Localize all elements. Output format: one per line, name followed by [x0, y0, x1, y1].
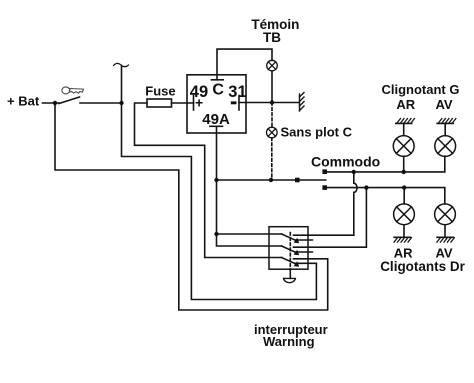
- wire pole2 output riser: [294, 188, 367, 248]
- pin common mid: [295, 178, 300, 183]
- wire ground to AR top lamp: [403, 124, 405, 136]
- switch blade pole3: [282, 258, 297, 265]
- pin commodo lower: [322, 185, 327, 190]
- svg-text:Fuse: Fuse: [145, 84, 175, 99]
- ground bottom left: [394, 237, 412, 242]
- lamp AR top: [393, 136, 414, 157]
- switch key-switch blade: [59, 97, 80, 104]
- svg-text:+: +: [195, 94, 203, 110]
- wire dashed lamp to common wire: [271, 138, 273, 180]
- label minus: [231, 101, 237, 104]
- svg-text:AR: AR: [396, 97, 415, 112]
- relay U1 box: [187, 75, 246, 133]
- node dashed-common: [269, 178, 273, 182]
- node AR-upper: [402, 170, 406, 174]
- wire switch to node B: [80, 102, 122, 104]
- node TB-31: [270, 100, 274, 104]
- svg-text:TB: TB: [263, 30, 281, 45]
- stub pole2 lower contact: [295, 251, 312, 253]
- node 49A-common: [214, 178, 218, 182]
- wire TB lamp down to 31 wire: [271, 71, 273, 103]
- node pole1 branch: [214, 232, 218, 236]
- node AR-lower: [402, 185, 406, 189]
- ground bottom right: [437, 237, 455, 242]
- wire ground to AV top lamp: [444, 124, 446, 136]
- wire commodo blade with hop to pole1 output: [354, 172, 357, 235]
- wire pole1 output: [294, 234, 354, 236]
- node B: [119, 101, 123, 105]
- node pole2-lower: [364, 185, 368, 189]
- actuator stem: [289, 269, 291, 278]
- wire commodo common: [217, 179, 326, 181]
- ground top left: [396, 119, 415, 124]
- svg-text:+ Bat: + Bat: [7, 94, 40, 109]
- key symbol: [62, 87, 84, 94]
- arrow pole3: [294, 261, 300, 266]
- actuator bowl: [284, 278, 296, 282]
- fuse F1: [147, 99, 172, 107]
- wire 49A chain down to warning pole2 input: [217, 126, 282, 246]
- svg-text:Sans plot C: Sans plot C: [281, 125, 353, 140]
- stub pole1 lower contact: [295, 239, 312, 241]
- terminal 31 bar: [238, 96, 240, 111]
- wire AR top lamp stem: [403, 156, 405, 172]
- wire commodo upper to G lamps: [327, 156, 445, 172]
- wire dashed TB to lamp sans plot: [271, 103, 273, 128]
- mechanical dashed link: [289, 233, 291, 270]
- wire +Bat lead: [43, 102, 60, 104]
- ground top right: [437, 119, 456, 124]
- wire fuse to relay terminal 49: [172, 102, 194, 104]
- break tilde on net B: [114, 63, 129, 66]
- wire C terminal up to TB lamp: [217, 49, 272, 80]
- svg-text:Commodo: Commodo: [311, 153, 380, 169]
- terminal 49 bar: [193, 96, 195, 111]
- lamp AR bottom: [394, 204, 415, 225]
- arrow pole1: [294, 238, 300, 243]
- wire chain A : +Bat node down, wrap under warning switch to pole3 upper contact: [55, 103, 328, 310]
- wire pole1 input branch: [217, 233, 282, 235]
- svg-text:Clignotant G: Clignotant G: [382, 82, 460, 97]
- switch blade pole2: [282, 246, 297, 253]
- svg-text:Cligotants Dr: Cligotants Dr: [380, 259, 465, 274]
- terminal C bar: [211, 79, 223, 81]
- lamp TB indicator: [267, 60, 278, 71]
- wire fuse chain : fuse left down and around to pole3 input: [135, 103, 282, 258]
- terminal 49A bar: [210, 125, 223, 127]
- wire chain B : node B down, wrap to pole3 lower contact: [122, 67, 317, 300]
- wire AV bottom lamp to ground: [444, 225, 446, 237]
- pin commodo upper: [322, 169, 327, 174]
- svg-text:31: 31: [228, 83, 246, 101]
- lamp AV bottom: [435, 204, 456, 225]
- lamp AV top: [435, 136, 456, 157]
- svg-text:C: C: [212, 82, 224, 99]
- arrow pole2: [294, 250, 300, 255]
- svg-text:Warning: Warning: [263, 334, 315, 349]
- node blade-upper: [352, 170, 356, 174]
- wire AR bottom lamp stem: [403, 188, 405, 204]
- wire AR bottom lamp to ground: [403, 225, 405, 237]
- warning switch box: [269, 227, 308, 270]
- node +Bat: [53, 101, 57, 105]
- ground wall right of relay: [300, 93, 305, 112]
- lamp sans plot C: [267, 127, 278, 138]
- wire relay 31 to ground: [239, 102, 299, 104]
- switch blade pole1: [282, 234, 297, 241]
- svg-text:AV: AV: [436, 97, 453, 112]
- wire commodo lower to Dr lamps: [327, 188, 445, 204]
